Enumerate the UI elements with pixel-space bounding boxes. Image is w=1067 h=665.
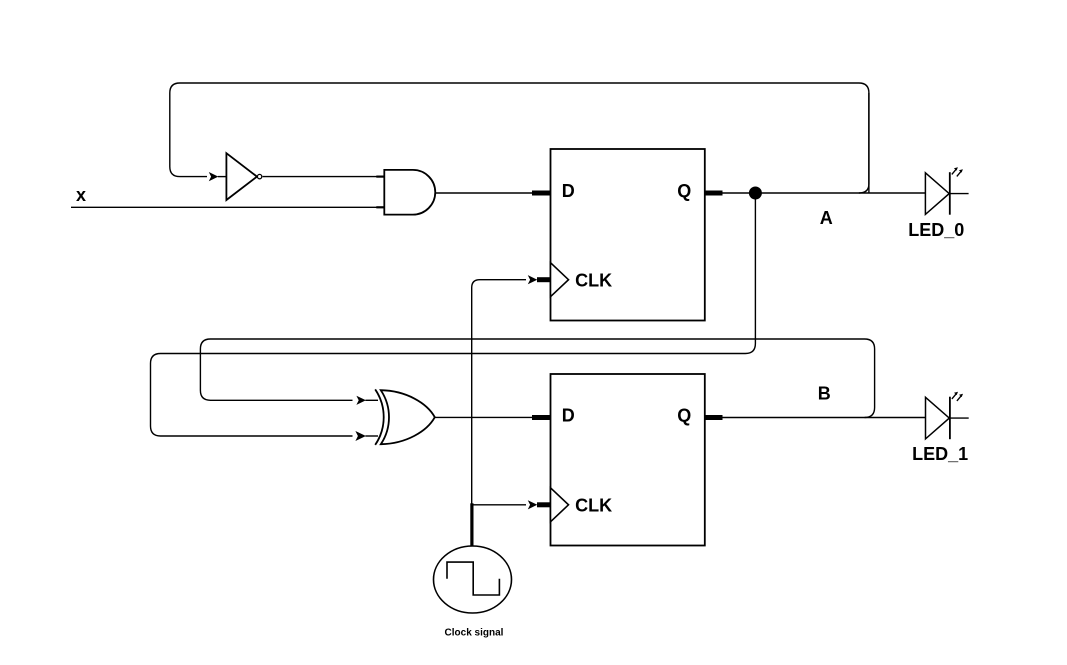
wire arrow stub to NOT gate — [218, 176, 227, 178]
flip-flop U5 CLK pin stub — [537, 502, 551, 507]
LED_0 light ray 2 — [957, 171, 961, 176]
svg-text:CLK: CLK — [575, 496, 612, 516]
AND gate U2 pin stub lower — [376, 206, 384, 208]
wire inverter output to AND gate upper input — [263, 176, 378, 178]
flip-flop U5 pin D stub — [532, 415, 551, 420]
arrowhead into XOR lower input — [355, 431, 366, 441]
svg-text:LED_1: LED_1 — [912, 444, 968, 464]
AND gate U2 body — [384, 170, 435, 215]
clock source bold stub — [470, 503, 473, 547]
inverter U1 bubble — [257, 174, 261, 178]
wire FF2 Q to LED_1 — [723, 417, 926, 419]
wire top feedback loop from node A riser to NOT gate input — [170, 83, 869, 184]
svg-text:Q: Q — [677, 181, 691, 201]
wire XOR output to FF2 D pin — [435, 416, 532, 418]
LED_0 cathode bar — [949, 172, 951, 215]
wire clock branch to FF2 CLK — [472, 504, 526, 506]
XOR gate U4 leading arc — [375, 389, 384, 445]
svg-text:LED_0: LED_0 — [908, 220, 964, 240]
flip-flop U3 pin D stub — [532, 191, 551, 196]
svg-text:A: A — [820, 208, 833, 228]
wire x input to AND gate lower input — [71, 206, 378, 208]
svg-text:D: D — [562, 406, 575, 426]
XOR gate U4 body — [381, 390, 435, 444]
AND gate U2 pin stub upper — [376, 176, 384, 178]
wire node A riser to top loop — [868, 93, 870, 193]
LED_0 light ray 1 — [952, 169, 956, 174]
wire clock net vertical and branch to FF1 CLK — [472, 280, 526, 505]
wire stub into XOR lower input — [365, 435, 378, 437]
arrowhead into FF2 CLK — [528, 500, 538, 509]
flip-flop U5 clock chevron — [551, 488, 569, 522]
arrowhead into XOR upper input — [356, 396, 366, 405]
wire stub into XOR upper input — [365, 399, 378, 401]
clock source waveform — [447, 562, 499, 595]
clock source ellipse — [434, 546, 512, 613]
flip-flop U3 pin Q stub — [705, 191, 723, 196]
flip-flop U3 box — [551, 149, 705, 321]
LED_1 anode-side short wire — [950, 417, 969, 419]
wire node A riser joining curve — [859, 184, 869, 193]
wire AND output to FF1 D pin — [435, 192, 532, 194]
wire FF1 Q to LED_0 — [723, 192, 926, 194]
svg-text:Q: Q — [677, 406, 691, 426]
LED_0 diode triangle — [925, 173, 949, 215]
svg-text:CLK: CLK — [575, 271, 612, 291]
LED_0 anode-side short wire — [950, 193, 969, 195]
inverter U1 triangle — [226, 153, 257, 200]
svg-text:B: B — [818, 384, 831, 404]
junction node A dot — [749, 187, 762, 200]
LED_1 diode triangle — [926, 397, 950, 439]
wire node A feedback down to XOR lower input — [151, 199, 756, 436]
LED_1 light ray 1 — [952, 394, 956, 399]
arrowhead into FF1 CLK — [528, 275, 538, 284]
flip-flop U5 box — [551, 374, 705, 546]
arrowhead into NOT gate — [209, 172, 219, 181]
wire node B feedback from LED_1 line to XOR upper input — [200, 339, 874, 418]
flip-flop U3 clock chevron — [551, 263, 569, 297]
flip-flop U5 pin Q stub — [705, 415, 723, 420]
LED_1 cathode bar — [949, 397, 951, 440]
svg-text:Clock signal: Clock signal — [445, 628, 504, 639]
svg-text:x: x — [76, 185, 86, 205]
flip-flop U3 CLK pin stub — [537, 277, 551, 282]
svg-text:D: D — [562, 181, 575, 201]
LED_1 light ray 2 — [957, 396, 961, 401]
